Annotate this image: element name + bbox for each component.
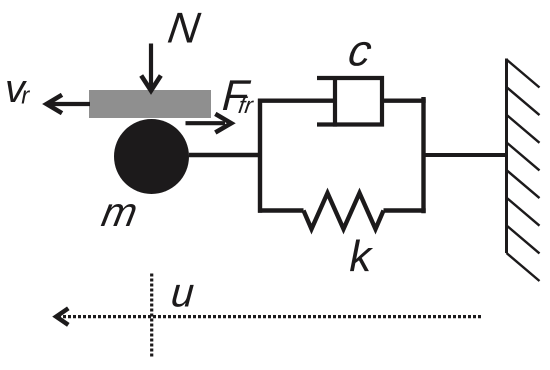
label v_r xyxy=(5,67,30,111)
dotted u-axis horizontal line xyxy=(58,315,482,318)
damper C cylinder xyxy=(317,78,382,125)
svg-text:k: k xyxy=(349,232,373,281)
wire damper to right vertical xyxy=(382,98,426,102)
label u xyxy=(170,270,196,316)
arrow F_fr (friction force, rightward) xyxy=(186,114,232,133)
wire right vertical to wall xyxy=(424,153,508,157)
svg-text:fr: fr xyxy=(237,92,256,118)
svg-text:r: r xyxy=(21,83,30,110)
wire mass to left node xyxy=(189,153,262,157)
svg-text:N: N xyxy=(165,5,204,53)
svg-text:u: u xyxy=(170,270,196,316)
mass m (circle) xyxy=(114,119,189,194)
spring k (zigzag) xyxy=(304,193,384,229)
left vertical wire xyxy=(258,99,262,213)
friction pad (gray bar) xyxy=(89,90,211,118)
label F_fr xyxy=(221,72,256,120)
label N xyxy=(165,5,204,53)
wire left node to spring xyxy=(258,208,304,212)
wire spring to right vertical xyxy=(384,208,426,212)
label m xyxy=(98,189,141,235)
right vertical wire xyxy=(421,97,425,213)
arrow N (normal force, downward) xyxy=(141,44,161,91)
wall hatching xyxy=(507,60,540,282)
arrowhead of u-axis (leftward) xyxy=(56,308,68,325)
wire left node to damper rod xyxy=(258,98,335,102)
damper piston xyxy=(333,76,337,127)
svg-text:c: c xyxy=(345,27,376,76)
arrow v_r (velocity, leftward) xyxy=(47,95,90,113)
label c xyxy=(345,27,376,76)
wall line xyxy=(505,59,508,254)
svg-text:m: m xyxy=(98,189,141,235)
dotted vertical reference line xyxy=(150,274,153,358)
